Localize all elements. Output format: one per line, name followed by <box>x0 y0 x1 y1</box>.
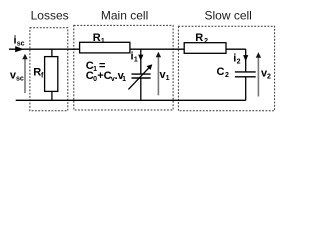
current arrow i1 <box>138 55 143 61</box>
svg-text:1: 1 <box>122 76 126 83</box>
voltage arrow v_sc <box>22 54 27 93</box>
wire R_f bottom lead <box>51 91 53 100</box>
current arrow i_sc <box>15 46 24 52</box>
svg-text:R: R <box>93 32 101 44</box>
svg-text:sc: sc <box>16 76 24 83</box>
voltage arrow v1 <box>156 52 161 96</box>
capacitor C1 plates (variable) <box>132 73 151 75</box>
wire C2 bottom lead <box>245 77 247 101</box>
wire top horizontal <box>9 48 246 50</box>
svg-text:+C: +C <box>97 70 111 82</box>
current arrow i2 <box>243 55 248 61</box>
voltage arrow v2 <box>256 52 261 96</box>
svg-text:2: 2 <box>204 38 208 45</box>
capacitor C2 plates <box>235 71 256 73</box>
variable capacitor arrow through C1 <box>128 67 150 90</box>
resistor R2 (horizontal box) <box>184 43 226 54</box>
resistor R_f (vertical box) <box>45 57 58 92</box>
dashed box Slow cell <box>178 26 274 111</box>
svg-text:2: 2 <box>267 73 271 80</box>
wire R_f top lead <box>51 49 53 57</box>
wire C1 bottom lead <box>140 78 142 100</box>
svg-text:R: R <box>33 67 41 79</box>
wire C2 top lead <box>245 49 247 71</box>
svg-text:Slow cell: Slow cell <box>205 8 252 22</box>
dashed box Main cell <box>74 25 173 110</box>
svg-text:2: 2 <box>225 72 229 79</box>
svg-text:Losses: Losses <box>31 8 69 22</box>
resistor R1 (horizontal box) <box>80 42 130 53</box>
svg-text:1: 1 <box>134 56 138 63</box>
wire bottom horizontal <box>16 99 246 101</box>
svg-text:sc: sc <box>17 41 25 48</box>
svg-text:R: R <box>195 32 203 44</box>
wire C1 top lead <box>140 49 142 73</box>
svg-text:C: C <box>217 66 225 78</box>
svg-text:Main cell: Main cell <box>101 8 148 22</box>
svg-text:2: 2 <box>237 58 241 65</box>
svg-text:1: 1 <box>101 38 105 45</box>
dashed box Losses <box>30 28 68 111</box>
svg-text:1: 1 <box>166 75 170 82</box>
